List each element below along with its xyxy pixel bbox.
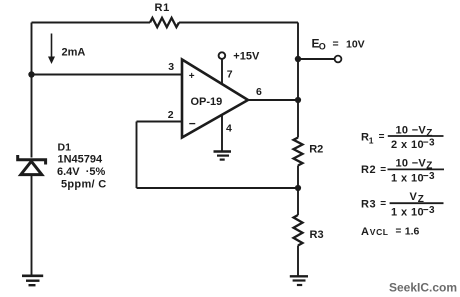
svg-text:R2: R2 xyxy=(361,164,376,176)
svg-text:R3: R3 xyxy=(310,229,324,241)
svg-text:R2: R2 xyxy=(309,143,323,155)
svg-text:A: A xyxy=(361,226,369,238)
pin 7 wire xyxy=(221,59,223,84)
wire pin 6 output xyxy=(248,99,298,101)
svg-text:10 −V: 10 −V xyxy=(396,125,427,137)
svg-text:2 x 10: 2 x 10 xyxy=(391,139,424,151)
svg-text:−: − xyxy=(189,116,196,130)
wire left vertical xyxy=(31,23,33,158)
svg-text:−3: −3 xyxy=(423,138,435,149)
node output tap xyxy=(295,56,301,62)
svg-text:2: 2 xyxy=(168,109,174,121)
label D1 value block xyxy=(57,142,107,191)
wire R3 to ground xyxy=(297,246,299,277)
svg-text:R1: R1 xyxy=(155,2,170,14)
svg-text:4: 4 xyxy=(226,123,232,135)
equation R3 xyxy=(361,191,444,219)
svg-text:10V: 10V xyxy=(346,38,365,50)
svg-text:=: = xyxy=(380,165,386,176)
wire top horizontal right of R1 xyxy=(179,22,298,24)
svg-text:5ppm/ C: 5ppm/ C xyxy=(61,178,107,190)
svg-text:3: 3 xyxy=(168,61,174,73)
svg-text:VCL: VCL xyxy=(370,227,389,237)
svg-text:=: = xyxy=(380,198,386,209)
resistor R3 xyxy=(294,215,324,245)
svg-text:1 x 10: 1 x 10 xyxy=(391,207,424,219)
watermark SeekIC.com xyxy=(389,281,457,295)
equation R2 xyxy=(361,157,444,184)
ground (left, D1) xyxy=(22,276,43,285)
output terminal EO xyxy=(335,56,342,63)
zener diode D1 xyxy=(18,155,46,175)
op-amp U1 OP-19 xyxy=(182,60,248,138)
pin 7 label xyxy=(227,69,233,81)
wire right vertical xyxy=(297,23,299,138)
equation AVCL xyxy=(361,226,420,238)
pin 4 label xyxy=(226,123,232,135)
svg-text:6.4V ·5%: 6.4V ·5% xyxy=(57,166,106,178)
svg-text:SeekIC.com: SeekIC.com xyxy=(389,281,457,295)
svg-text:=: = xyxy=(396,226,402,237)
wire feedback horizontal to R2/R3 node xyxy=(137,187,299,189)
resistor R1 xyxy=(150,2,179,27)
svg-text:R3: R3 xyxy=(361,198,376,210)
svg-text:=: = xyxy=(333,38,339,50)
svg-text:=: = xyxy=(379,132,385,143)
svg-text:−3: −3 xyxy=(423,205,435,216)
svg-text:1 x 10: 1 x 10 xyxy=(391,173,424,185)
svg-text:1.6: 1.6 xyxy=(405,226,420,238)
label EO = 10V xyxy=(312,37,365,52)
svg-text:OP-19: OP-19 xyxy=(191,96,223,108)
pin 6 label xyxy=(256,86,262,98)
svg-text:+15V: +15V xyxy=(233,51,260,63)
wire diode to ground xyxy=(31,175,33,276)
svg-text:1: 1 xyxy=(369,136,374,146)
node B (R2/R3 feedback junction) xyxy=(295,185,301,191)
svg-text:7: 7 xyxy=(227,69,233,81)
svg-text:O: O xyxy=(319,42,326,52)
ground (op-amp pin 4) xyxy=(214,152,232,160)
node pin 6 junction xyxy=(295,97,301,103)
node A (junction left wire / pin 3) xyxy=(28,71,34,77)
svg-text:2mA: 2mA xyxy=(62,47,86,59)
pin 4 wire xyxy=(221,114,223,151)
wire top horizontal left of R1 xyxy=(32,22,151,24)
resistor R2 xyxy=(294,138,324,166)
equation R1 xyxy=(361,125,444,152)
wire pin 2 to feedback xyxy=(137,121,183,123)
wire node A to pin 3 xyxy=(32,74,183,76)
svg-text:10 −V: 10 −V xyxy=(396,157,427,169)
current arrow 2mA xyxy=(48,34,85,65)
wire feedback vertical xyxy=(136,122,138,189)
ground (R3 bottom) xyxy=(290,276,308,285)
svg-text:V: V xyxy=(410,191,418,203)
wire to output terminal xyxy=(298,58,335,60)
svg-text:+: + xyxy=(189,71,195,82)
svg-text:6: 6 xyxy=(256,86,262,98)
svg-text:1N45794: 1N45794 xyxy=(58,154,104,166)
+15V supply terminal xyxy=(219,51,260,63)
pin 3 label xyxy=(168,61,174,73)
pin 2 label xyxy=(168,109,174,121)
svg-text:−3: −3 xyxy=(423,171,435,182)
svg-text:D1: D1 xyxy=(58,142,72,154)
wire R2 to node B xyxy=(297,166,299,216)
